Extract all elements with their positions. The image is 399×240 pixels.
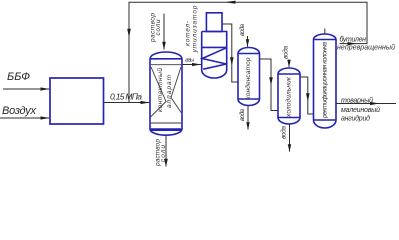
svg-text:аппарат: аппарат: [166, 74, 173, 108]
wire column top stub: [324, 29, 326, 35]
svg-text:товарный: товарный: [341, 97, 373, 105]
arrow recycle left on top line: [225, 1, 236, 4]
svg-text:непревращенный: непревращенный: [337, 44, 395, 52]
arrow down boiler to condenser: [230, 57, 234, 65]
svg-text:ангидрид: ангидрид: [341, 115, 370, 123]
svg-text:ББФ: ББФ: [7, 71, 30, 83]
contact apparatus vessel: [150, 52, 182, 135]
arrow down condenser to cooler: [269, 77, 273, 85]
svg-text:0,15 МПа: 0,15 МПа: [110, 92, 142, 102]
arrow air into mixer: [41, 116, 50, 119]
arrow down cooler to column: [306, 93, 310, 101]
wire contact gases to boiler: [183, 64, 202, 66]
arrow feed into reactor: [141, 101, 150, 104]
wire water inlet cooler: [288, 60, 290, 68]
svg-text:утилизатор: утилизатор: [192, 5, 199, 53]
arrow product right: [370, 102, 380, 105]
wire salt solution outlet: [165, 136, 167, 167]
wire condenser to cooler: [260, 59, 278, 111]
svg-text:вода: вода: [282, 46, 290, 59]
svg-text:соли: соли: [155, 19, 162, 35]
svg-text:бутилен: бутилен: [340, 36, 367, 44]
arrow right on butylene label line: [348, 42, 358, 45]
svg-text:вода: вода: [238, 24, 246, 36]
wire air feed line: [0, 117, 50, 119]
svg-text:вода: вода: [238, 109, 246, 121]
arrow BBF into mixer: [41, 87, 50, 90]
svg-text:холодильник: холодильник: [285, 76, 293, 118]
cooler vessel: [278, 68, 300, 124]
arrow water out of cooler: [288, 144, 291, 152]
svg-text:контактный: контактный: [156, 68, 164, 112]
arrow gases into boiler: [192, 63, 201, 66]
svg-text:газы: газы: [185, 58, 194, 64]
svg-text:конденсатор: конденсатор: [244, 57, 252, 99]
rectification column: [314, 34, 337, 128]
wire water outlet condenser: [247, 106, 249, 130]
contact apparatus internals: [151, 65, 182, 123]
wire salt solution inlet: [163, 14, 165, 50]
svg-text:котел-: котел-: [185, 20, 192, 46]
arrow salt solution out: [164, 159, 168, 167]
svg-text:малеиновый: малеиновый: [341, 106, 380, 114]
arrow water into cooler: [287, 60, 290, 68]
wire water inlet condenser: [247, 36, 249, 47]
svg-text:соли: соли: [160, 145, 167, 162]
arrow down on left recycle vertical: [127, 29, 131, 38]
waste-heat boiler (kotel-utilizator): [202, 13, 227, 78]
svg-text:ректификационная колонна: ректификационная колонна: [322, 42, 329, 119]
wire mixer to reactor line 0,15 MPa: [104, 102, 150, 104]
mixer block: [50, 78, 104, 124]
arrow salt solution in: [162, 42, 166, 50]
svg-text:Воздух: Воздух: [2, 105, 37, 117]
arrow water into condenser: [246, 39, 249, 47]
wire recycle top line: [129, 2, 367, 102]
wire product line maleic anhydride: [336, 103, 396, 105]
wire cooler to column: [300, 77, 313, 114]
wire water outlet cooler: [289, 125, 291, 152]
svg-text:вода: вода: [280, 126, 288, 139]
wire BBF feed line: [3, 88, 50, 90]
wire boiler to condenser: [222, 24, 238, 82]
condenser vessel: [238, 48, 260, 106]
arrow water out of condenser: [246, 122, 249, 130]
